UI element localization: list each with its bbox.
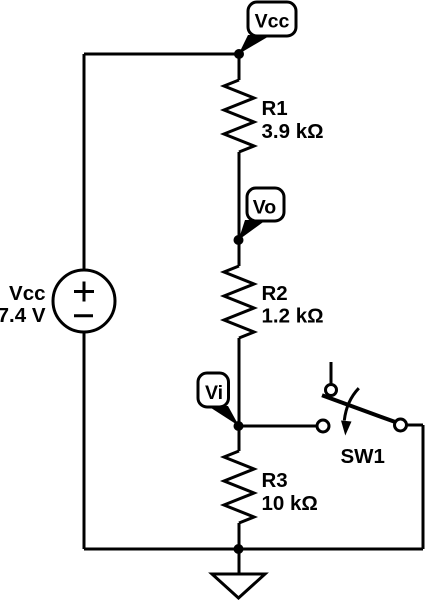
svg-text:1.2 kΩ: 1.2 kΩ [262, 305, 324, 328]
svg-text:Vcc: Vcc [255, 11, 290, 33]
svg-text:R3: R3 [262, 469, 288, 492]
svg-text:Vo: Vo [253, 197, 277, 219]
svg-text:10 kΩ: 10 kΩ [262, 492, 318, 515]
svg-text:R1: R1 [262, 97, 288, 120]
svg-text:7.4 V: 7.4 V [0, 304, 46, 327]
svg-text:Vcc: Vcc [9, 282, 45, 305]
svg-text:SW1: SW1 [341, 445, 385, 468]
svg-text:R2: R2 [262, 282, 288, 305]
svg-text:Vi: Vi [205, 382, 223, 404]
svg-text:3.9 kΩ: 3.9 kΩ [262, 120, 324, 143]
